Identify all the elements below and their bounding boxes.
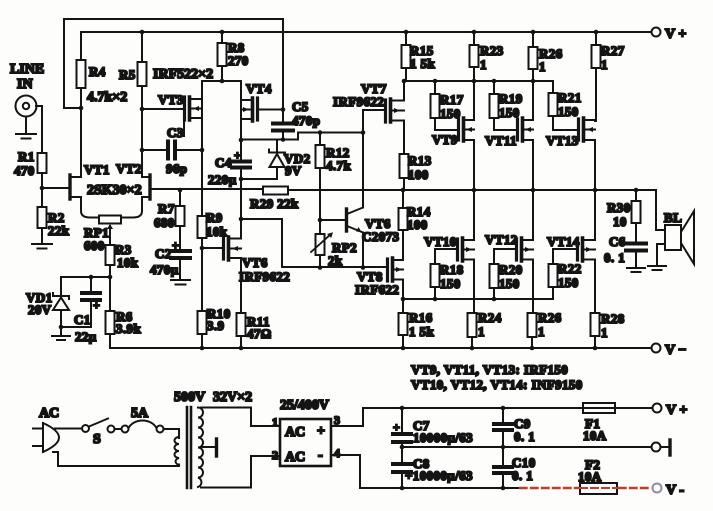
svg-text:VT9, VT11, VT13: IRF150: VT9, VT11, VT13: IRF150 (411, 362, 568, 377)
svg-text:VT10: VT10 (424, 234, 457, 249)
transformer primary (175, 437, 180, 465)
svg-text:470p: 470p (292, 113, 320, 128)
resistor R1 (38, 153, 47, 173)
ground (VD1/C1) (52, 327, 70, 340)
svg-text:1: 1 (480, 57, 487, 72)
svg-text:VT2: VT2 (116, 161, 142, 176)
svg-text:1: 1 (272, 415, 278, 429)
ground (C6) (627, 252, 645, 272)
resistor R13 (400, 154, 409, 178)
capacitor C6 (635, 223, 637, 242)
svg-text:R1: R1 (18, 149, 35, 164)
svg-text:470μ: 470μ (150, 262, 179, 277)
svg-text:2k: 2k (328, 253, 343, 268)
svg-text:R26: R26 (538, 310, 562, 325)
terminal V- (supply) (653, 484, 662, 493)
ground (BL) (648, 266, 666, 270)
node: VT8 source (401, 297, 406, 302)
svg-text:10: 10 (613, 214, 627, 229)
capacitor C1 (90, 277, 92, 291)
wire: VT3/VT4 source bus (202, 80, 241, 82)
svg-text:4: 4 (334, 446, 340, 460)
wire: upper gate bus (404, 81, 553, 93)
resistor R3 (106, 245, 115, 265)
wire: bias node line (61, 276, 110, 278)
resistor R23 (473, 32, 475, 45)
transistor VT10 (435, 248, 456, 250)
svg-text:C6: C6 (609, 234, 626, 249)
transistor VT14 (576, 239, 579, 260)
svg-text:100: 100 (408, 167, 429, 182)
resistor R20 (493, 249, 495, 264)
svg-text:10A: 10A (583, 428, 607, 443)
svg-text:R7: R7 (158, 201, 175, 216)
svg-text:R4: R4 (89, 64, 106, 79)
wire: plug bottom to primary (53, 452, 179, 466)
svg-text:9V: 9V (285, 163, 302, 178)
svg-text:R23: R23 (480, 43, 504, 58)
svg-text:150: 150 (499, 276, 520, 291)
svg-text:10000μ/63: 10000μ/63 (413, 430, 473, 445)
fuse 5A (122, 426, 129, 433)
ground (R2) (32, 228, 52, 249)
wire: secondary to bridge (201, 408, 280, 427)
node: bottom rail junctions (200, 346, 598, 351)
svg-text:IRF9622: IRF9622 (239, 269, 290, 284)
resistor R19 (493, 81, 495, 94)
resistor R6 (109, 277, 111, 311)
connector: LINE IN jack (16, 96, 37, 117)
svg-text:3: 3 (334, 413, 340, 427)
resistor R21 (549, 93, 558, 116)
wire: switch to fuse (115, 428, 122, 430)
svg-text:R19: R19 (499, 91, 523, 106)
ground (jack) (16, 117, 36, 139)
svg-text:C2: C2 (155, 246, 172, 261)
svg-text:150: 150 (558, 275, 579, 290)
svg-text:VT11: VT11 (485, 133, 517, 148)
svg-text:22μ: 22μ (75, 329, 97, 344)
svg-text:VT14: VT14 (547, 234, 580, 249)
svg-text:+: + (93, 298, 100, 312)
wire: red dashed V- rail (520, 487, 650, 489)
resistor R26 (upper) (532, 32, 534, 47)
svg-text:+: + (393, 420, 400, 434)
resistor R4 (80, 32, 82, 60)
svg-text:2: 2 (272, 448, 278, 462)
transistor VT13 (577, 119, 580, 140)
wire: gate lead VT1 (42, 187, 68, 189)
resistor R26 (lower) (528, 313, 537, 337)
transformer secondary (198, 408, 203, 488)
svg-text:3.9: 3.9 (207, 318, 225, 333)
wire: link to R4 bottom node (64, 107, 81, 109)
transistor VT8 (386, 259, 389, 281)
svg-text:C1: C1 (74, 312, 91, 327)
resistor R29 (263, 187, 288, 195)
svg-text:AC: AC (285, 450, 305, 465)
resistor R10 (201, 248, 203, 311)
svg-text:4.7k: 4.7k (326, 158, 351, 173)
svg-text:VT1: VT1 (84, 162, 110, 177)
svg-text:470: 470 (14, 163, 35, 178)
svg-text:VT4: VT4 (246, 81, 272, 96)
svg-text:+: + (317, 424, 325, 439)
svg-text:0. 1: 0. 1 (514, 429, 535, 444)
node: output rail junctions (178, 188, 639, 193)
resistor R24 (468, 313, 477, 337)
svg-text:25/400V: 25/400V (280, 398, 329, 413)
svg-text:AC: AC (39, 406, 59, 421)
svg-text:0. 1: 0. 1 (604, 250, 625, 265)
svg-text:22k: 22k (48, 223, 70, 238)
svg-text:1: 1 (538, 324, 545, 339)
svg-text:VT12: VT12 (485, 232, 518, 247)
wire: V- bottom rail (amplifier) (110, 347, 651, 349)
svg-text:R27: R27 (601, 43, 625, 58)
node: bias node (59, 275, 113, 330)
svg-text:R30: R30 (607, 200, 631, 215)
svg-text:R28: R28 (601, 311, 625, 326)
resistor R27 (595, 32, 597, 45)
node: supply V+ junctions (400, 406, 506, 411)
potentiometer RP1 (99, 216, 121, 224)
svg-text:10k: 10k (117, 255, 139, 270)
node: supply V- junctions (400, 486, 506, 491)
svg-text:V +: V + (666, 403, 687, 418)
AC plug (43, 423, 59, 452)
svg-text:3.9k: 3.9k (116, 321, 141, 336)
switch S (82, 425, 89, 432)
wire: bridge - output to V- rail (331, 455, 520, 488)
svg-text:AC: AC (285, 425, 305, 440)
transistor VT5 (labeled VT6 IRF9622) (202, 247, 222, 249)
svg-text:+10000μ/63: +10000μ/63 (405, 468, 473, 483)
transformer core (187, 407, 191, 488)
fuse F2 (580, 483, 617, 494)
zener VD2 (241, 167, 277, 179)
node: input gate node (40, 186, 45, 191)
svg-text:LINE: LINE (10, 62, 44, 77)
svg-text:150: 150 (558, 104, 579, 119)
capacitor C7 (401, 408, 403, 432)
svg-text:1: 1 (601, 57, 608, 72)
svg-text:1: 1 (478, 324, 485, 339)
svg-text:5A: 5A (131, 406, 149, 421)
svg-text:C5: C5 (292, 99, 309, 114)
zener VD1 (60, 277, 62, 296)
svg-text:1: 1 (539, 59, 546, 74)
wire: VT3 drain/source column (201, 81, 203, 216)
svg-text:150: 150 (440, 276, 461, 291)
transistor VT9 (457, 119, 460, 140)
transistor VT6 C2073 (345, 209, 348, 231)
terminal V+ (amplifier) (652, 28, 661, 37)
svg-text:10A: 10A (578, 469, 602, 484)
svg-text:R24: R24 (478, 310, 502, 325)
wire: plug to switch (55, 428, 82, 430)
svg-text:VT9: VT9 (432, 132, 458, 147)
center tap (201, 446, 214, 448)
resistor R11 (237, 313, 246, 336)
wire: VT5 source link (241, 219, 387, 267)
resistor R15 (405, 32, 407, 45)
svg-text:IRF9622: IRF9622 (333, 94, 384, 109)
capacitor C2 (179, 226, 181, 249)
svg-text:C2073: C2073 (362, 229, 399, 244)
svg-text:20V: 20V (28, 302, 52, 317)
svg-text:VT6: VT6 (242, 255, 268, 270)
wire: outer top feedback loop (64, 19, 283, 108)
wire: R1 to gate node (41, 173, 43, 188)
svg-text:R22: R22 (558, 261, 582, 276)
terminal mid (supply) (652, 443, 661, 452)
svg-text:IRF622: IRF622 (355, 282, 399, 297)
svg-text:1: 1 (601, 325, 608, 340)
capacitor C10 (502, 447, 504, 465)
svg-text:R5: R5 (119, 67, 136, 82)
transistor VT2 (JFET half) (148, 175, 151, 199)
resistor R7 (179, 190, 181, 206)
resistor R14 (402, 190, 404, 208)
svg-text:500V: 500V (174, 390, 205, 405)
resistor R12 (319, 133, 321, 146)
svg-text:1 5k: 1 5k (409, 324, 434, 339)
svg-text:R21: R21 (558, 90, 582, 105)
svg-text:R13: R13 (408, 153, 432, 168)
svg-text:VT10, VT12, VT14: INF9150: VT10, VT12, VT14: INF9150 (411, 377, 583, 392)
svg-text:-: - (318, 448, 323, 463)
fuse F1 (583, 403, 615, 413)
svg-text:600: 600 (84, 238, 105, 253)
transistor VT11 (516, 119, 519, 140)
svg-text:C4: C4 (215, 155, 232, 170)
resistor R30 (635, 190, 637, 201)
svg-text:1 5k: 1 5k (410, 56, 435, 71)
wire: driver gate node line (241, 133, 363, 140)
resistor R8 (221, 32, 223, 43)
wire: supply mid rail (402, 446, 651, 448)
svg-text:220μ: 220μ (208, 172, 237, 187)
wire: jack to R1 (36, 106, 42, 153)
svg-text:C3: C3 (167, 125, 184, 140)
svg-text:2SK30×2: 2SK30×2 (87, 183, 142, 198)
wire: R3 to node (109, 265, 111, 277)
svg-text:VT3: VT3 (158, 92, 184, 107)
transistor VT12 (494, 248, 515, 250)
resistor R9 (198, 216, 207, 238)
svg-text:R17: R17 (440, 92, 464, 107)
svg-text:R9: R9 (206, 210, 223, 225)
wire: fuse to transformer (164, 429, 180, 438)
svg-text:0. 1: 0. 1 (512, 468, 533, 483)
resistor R2 (41, 188, 43, 207)
svg-text:32V×2: 32V×2 (213, 390, 252, 405)
svg-text:S: S (93, 432, 101, 447)
wire: VT4 drain column to C4 (240, 81, 242, 160)
svg-text:VT13: VT13 (546, 133, 579, 148)
wire: V+ top rail (81, 31, 651, 33)
svg-text:IN: IN (17, 77, 33, 92)
svg-text:R16: R16 (409, 310, 433, 325)
svg-text:V -: V - (666, 483, 684, 498)
node: VT2 drain taps (140, 107, 145, 153)
svg-text:680: 680 (154, 215, 175, 230)
svg-text:96p: 96p (166, 161, 187, 176)
resistor R22 (549, 264, 558, 287)
svg-text:270: 270 (228, 53, 249, 68)
capacitor C5 (282, 19, 284, 122)
svg-text:IRF522×2: IRF522×2 (153, 67, 213, 82)
svg-text:4.7k×2: 4.7k×2 (87, 90, 127, 105)
capacitor C9 (502, 408, 504, 422)
svg-text:BL: BL (664, 210, 682, 225)
wire: output/feedback rail (152, 189, 656, 230)
wire: bridge + output to V+ rail (331, 408, 652, 426)
resistor R5 (141, 32, 143, 62)
node: C4 bottom / VD2 branch (239, 177, 244, 222)
svg-text:V +: V + (665, 27, 686, 42)
resistor R28 (591, 313, 600, 336)
transistor VT1 (JFET half) (68, 175, 71, 199)
svg-text:100: 100 (407, 217, 428, 232)
svg-text:R18: R18 (440, 262, 464, 277)
svg-text:V −: V − (665, 343, 686, 358)
svg-text:47Ω: 47Ω (247, 326, 272, 341)
node: rail junctions (140, 30, 599, 35)
ground (C2) (171, 260, 190, 285)
wire: lower gate bus (403, 288, 553, 299)
terminal V- (amplifier) (652, 344, 661, 353)
node: R4 bottom junction (79, 106, 84, 111)
terminal V+ (supply) (653, 404, 662, 413)
resistor R18 (434, 249, 436, 264)
svg-text:R20: R20 (499, 262, 523, 277)
svg-text:+: + (172, 238, 179, 252)
svg-text:R29 22k: R29 22k (250, 196, 299, 211)
resistor R17 (434, 81, 436, 94)
potentiometer RP2 (316, 234, 325, 255)
capacitor C8 (401, 447, 403, 462)
resistor R16 (402, 299, 404, 313)
